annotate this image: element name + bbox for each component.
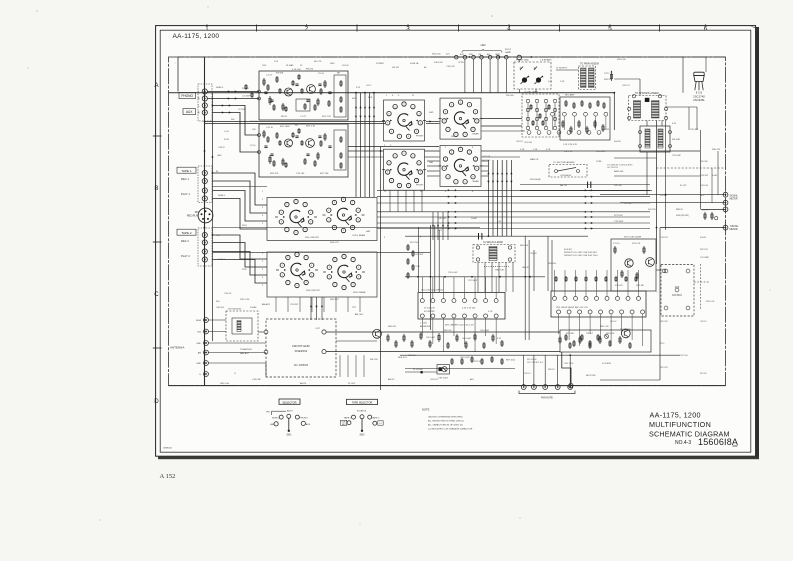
svg-text:DIN-2 REAR: DIN-2 REAR — [353, 291, 366, 294]
svg-text:C54 0.033: C54 0.033 — [596, 151, 606, 153]
wire phono R to eq amp — [208, 98, 260, 100]
IC2 pin 9 — [637, 296, 641, 300]
wire to FM MUTE — [533, 355, 535, 384]
resistor — [411, 340, 413, 348]
resistor — [565, 276, 567, 282]
junction — [569, 354, 571, 356]
contact — [553, 117, 556, 120]
pin — [563, 112, 567, 116]
junction — [204, 91, 206, 93]
svg-text:1.5V: 1.5V — [274, 61, 279, 63]
junction — [204, 150, 206, 152]
underline mark — [733, 445, 738, 447]
svg-text:0: 0 — [344, 287, 345, 289]
wire x706 vertical — [705, 57, 707, 72]
capacitor — [264, 91, 267, 93]
svg-text:C61 0.047 C67 56P/100: C61 0.047 C67 56P/100 — [421, 290, 444, 292]
svg-text:4.7K 100: 4.7K 100 — [292, 69, 302, 71]
wire vertical x660 — [659, 228, 661, 380]
svg-text:C30 100: C30 100 — [216, 307, 225, 309]
balun matching transformer dashed box — [226, 311, 258, 341]
signal arrow — [448, 216, 450, 218]
svg-text:6: 6 — [310, 222, 311, 224]
inner border frame — [160, 30, 751, 452]
wire vertical x418 — [417, 227, 419, 292]
junction — [499, 276, 501, 278]
svg-text:R34 4.7K: R34 4.7K — [330, 242, 339, 244]
IC2 pin 5 — [595, 296, 599, 300]
svg-text:RES 0.01: RES 0.01 — [398, 357, 408, 359]
svg-text:C28 10P: C28 10P — [700, 175, 709, 177]
svg-text:C33 0.01: C33 0.01 — [700, 185, 709, 187]
pin — [594, 112, 598, 116]
svg-text:LT DIAL LAMP: LT DIAL LAMP — [524, 91, 538, 94]
wire tape stair — [213, 252, 268, 276]
contact PHONO — [295, 415, 299, 419]
resistor — [491, 356, 493, 363]
signal arrow — [510, 172, 512, 174]
resistor — [589, 342, 591, 349]
jack AUX L — [202, 103, 207, 108]
svg-text:C50 33: C50 33 — [516, 141, 523, 143]
svg-text:S-CURVE: S-CURVE — [602, 363, 612, 365]
contact — [526, 126, 529, 129]
svg-text:2: 2 — [287, 282, 288, 284]
junction — [613, 92, 615, 94]
jack PHONO L — [202, 89, 207, 94]
svg-text:C22 1: C22 1 — [604, 73, 610, 75]
svg-text:FRONT: FRONT — [416, 136, 424, 138]
filter FLB FM-5001 dashed box — [661, 265, 694, 317]
pin leg — [702, 82, 703, 91]
svg-text:C18 22: C18 22 — [218, 147, 226, 149]
svg-text:R85 1.5K: R85 1.5K — [600, 326, 609, 328]
svg-text:C1 47: C1 47 — [266, 75, 273, 77]
svg-text:15606I8A: 15606I8A — [698, 437, 738, 447]
svg-text:R-CH: R-CH — [224, 139, 230, 141]
IC1 pin 4 — [452, 299, 456, 303]
resistor — [292, 132, 294, 138]
svg-text:C99 22: C99 22 — [524, 373, 531, 375]
resistor — [276, 132, 278, 139]
pin — [675, 288, 679, 292]
wire left vertical ground bus — [204, 57, 206, 386]
svg-text:R30 47K: R30 47K — [712, 149, 721, 151]
wire dashed to filter — [700, 264, 702, 310]
capacitor — [328, 145, 331, 147]
resistor — [575, 276, 577, 282]
svg-text:8: 8 — [287, 257, 288, 259]
svg-text:6: 6 — [281, 212, 282, 214]
svg-text:C59 47: C59 47 — [530, 253, 538, 255]
svg-text:SG AM: SG AM — [250, 306, 257, 309]
svg-text:0.0022: 0.0022 — [700, 237, 707, 239]
transformer T2 dashed box — [629, 96, 667, 121]
svg-text:0: 0 — [465, 134, 466, 136]
svg-text:ALL RESISTORS IN OHMS 1/4W (J): ALL RESISTORS IN OHMS 1/4W (J) — [428, 420, 464, 423]
pin leg — [695, 82, 696, 91]
wire IF stub — [512, 263, 514, 293]
svg-text:R101 150: R101 150 — [432, 54, 442, 56]
resistor — [340, 136, 342, 143]
wire IF stub — [484, 263, 486, 293]
resistor — [532, 120, 534, 126]
junction — [417, 276, 419, 278]
wire tape stair — [213, 191, 268, 222]
resistor — [324, 80, 326, 88]
wire meter line 1 — [600, 194, 726, 196]
rec amp dashed box — [522, 94, 559, 137]
svg-text:4: 4 — [475, 159, 476, 161]
svg-text:AUX: AUX — [306, 423, 311, 426]
wire vertical bundle — [360, 93, 362, 197]
pin — [476, 246, 479, 249]
svg-text:R1 47K: R1 47K — [242, 88, 250, 90]
svg-text:AFC: AFC — [470, 378, 475, 381]
scan speck — [656, 291, 657, 292]
pin — [573, 112, 577, 116]
svg-text:2: 2 — [412, 106, 413, 108]
wire tape stair — [213, 199, 268, 230]
pin — [537, 131, 541, 135]
svg-text:SW2: SW2 — [360, 434, 366, 436]
svg-text:TUNING: TUNING — [730, 226, 739, 228]
svg-text:6.3V: 6.3V — [672, 123, 677, 125]
svg-text:AM IFT: AM IFT — [388, 378, 395, 381]
svg-text:TAPE 1: TAPE 1 — [344, 416, 352, 419]
wire stub — [413, 191, 415, 213]
svg-text:TAPE 1: TAPE 1 — [181, 169, 191, 173]
ruler tick — [458, 25, 460, 32]
IC1 pin 3 — [441, 299, 445, 303]
svg-text:IF OUT: IF OUT — [680, 185, 687, 187]
wire tape stair — [213, 235, 268, 259]
wire aux L stair to flat amp — [213, 106, 260, 136]
svg-text:AM OSC: AM OSC — [355, 313, 364, 316]
svg-text:1.2K: 1.2K — [533, 149, 538, 151]
svg-text:C47 330P: C47 330P — [700, 257, 710, 259]
svg-text:DIN-1 FRONT: DIN-1 FRONT — [305, 237, 320, 239]
IC2 MPX decoder block — [551, 291, 646, 317]
svg-text:8: 8 — [389, 163, 390, 165]
svg-text:C29 100P: C29 100P — [672, 155, 682, 157]
contact TAPE1 — [352, 415, 356, 419]
terminal FM MUTE 5 — [568, 385, 573, 390]
svg-text:LAMP: LAMP — [505, 51, 511, 54]
IC2 pin 15 — [588, 310, 592, 314]
capacitor — [295, 135, 298, 137]
pin — [664, 269, 668, 273]
wire IF stub — [491, 263, 493, 293]
svg-text:C71 10: C71 10 — [613, 243, 620, 245]
svg-text:NO.4-3: NO.4-3 — [675, 440, 691, 446]
svg-text:1 TU26: 1 TU26 — [420, 323, 428, 325]
wire stub — [397, 191, 399, 213]
lamp L6 — [496, 55, 500, 59]
scan speck — [27, 67, 28, 68]
svg-text:FL SEQ-FLA 260M: FL SEQ-FLA 260M — [483, 241, 502, 244]
ruler tick — [559, 25, 561, 32]
resistor — [429, 340, 431, 348]
resistor — [317, 98, 319, 106]
pin — [557, 131, 561, 135]
svg-text:0: 0 — [465, 181, 466, 183]
capacitor — [264, 145, 267, 147]
IC1 pin 10 — [484, 314, 488, 318]
svg-text:TAPE SELECTOR: TAPE SELECTOR — [352, 402, 373, 405]
svg-text:R110 3.3K: R110 3.3K — [240, 299, 250, 301]
svg-text:LED: LED — [481, 44, 486, 47]
svg-text:0: 0 — [408, 185, 409, 187]
svg-text:R81 56K: R81 56K — [566, 333, 574, 335]
jack TAPE1 REC L — [202, 170, 207, 175]
lamp L5 — [488, 55, 492, 59]
pin — [628, 116, 631, 119]
svg-text:0: 0 — [460, 149, 461, 151]
svg-text:C43 12P: C43 12P — [660, 237, 668, 239]
wire meter line 3 — [701, 208, 726, 210]
wire main horizontal bus y93 — [169, 92, 615, 94]
resistor — [412, 264, 414, 271]
svg-text:FRONT: FRONT — [416, 185, 424, 187]
resistor — [301, 140, 303, 146]
transformer T1 dashed box — [579, 66, 596, 90]
svg-text:RET 1004: RET 1004 — [506, 360, 516, 362]
resistor — [282, 103, 284, 111]
connector DIN REC/PLAY — [198, 208, 213, 223]
terminal front end OUT2 — [322, 350, 326, 354]
IC1 pin 5 — [463, 299, 467, 303]
svg-text:SP 202: SP 202 — [700, 373, 707, 375]
resistor — [456, 334, 458, 342]
terminal flat amp in L — [258, 134, 261, 137]
TO SECOND-ASSEM dashed box — [549, 165, 587, 178]
scan speck — [310, 380, 311, 381]
svg-text:C31 20P: C31 20P — [290, 304, 299, 306]
svg-text:PLAY 2: PLAY 2 — [181, 254, 190, 258]
pin — [508, 246, 511, 249]
svg-text:SOURCE: SOURCE — [357, 411, 367, 413]
svg-text:SHIELD: SHIELD — [216, 87, 224, 89]
svg-text:FM-5001: FM-5001 — [672, 294, 682, 297]
svg-text:LT SUPPLY: LT SUPPLY — [556, 68, 568, 70]
svg-text:TONE: TONE — [596, 161, 602, 163]
svg-text:R50 560: R50 560 — [506, 95, 514, 97]
svg-text:4: 4 — [391, 131, 392, 133]
svg-text:FRONT DIAL: FRONT DIAL — [516, 59, 530, 62]
rotary switch wafer DIN-1 FRONT — [294, 199, 298, 203]
wire bus to detector — [377, 228, 650, 230]
transistor Q1 — [285, 88, 293, 96]
svg-text:6: 6 — [387, 123, 388, 125]
resistor meter divider — [704, 212, 706, 220]
svg-text:SHIELD: SHIELD — [218, 195, 226, 197]
IC1 pin 15 — [431, 314, 435, 318]
resistor — [407, 244, 409, 251]
rotary switch wafer DIN-1 REAR — [341, 197, 345, 201]
svg-text:BW8402: BW8402 — [164, 448, 173, 450]
wire bus y190.6 — [520, 190, 652, 192]
svg-text:R27 10K: R27 10K — [320, 173, 329, 175]
IC2 pin 10 — [641, 310, 645, 314]
junction terminal chassis — [569, 383, 573, 387]
inner box eq feedback — [334, 75, 346, 117]
wire stub — [311, 297, 313, 312]
selector switch SW1 bracket FM — [272, 410, 287, 412]
wire lamp feeds — [430, 56, 455, 58]
wire stub — [299, 297, 301, 312]
wire bus y236 — [405, 235, 588, 237]
terminal antenna FM300 — [204, 318, 209, 323]
IC2 pin 1 — [553, 296, 557, 300]
svg-text:SW1: SW1 — [287, 434, 293, 436]
resistor — [589, 340, 591, 347]
svg-text:300Ω: 300Ω — [196, 320, 202, 322]
IC2 pin 3 — [574, 296, 578, 300]
jack TAPE1 REC R — [202, 178, 207, 183]
transformer T1 secondary coil — [589, 68, 595, 88]
svg-text:DET 3003: DET 3003 — [438, 378, 448, 380]
svg-text:7A 75Ω/300Ω: 7A 75Ω/300Ω — [228, 308, 241, 311]
wire to FM MUTE — [557, 355, 559, 384]
wire antenna gnd2 — [209, 362, 267, 364]
terminal flat amp in R — [258, 151, 261, 154]
signal arrow — [368, 106, 370, 108]
resistor — [562, 120, 564, 128]
wire meter line 4 — [660, 227, 726, 229]
svg-text:DIN-1 REAR: DIN-1 REAR — [353, 234, 366, 237]
wire bus y146.5 — [348, 146, 439, 148]
wire vertical bundle — [355, 93, 357, 197]
svg-text:4: 4 — [358, 210, 359, 212]
wire vertical to IF — [492, 160, 494, 236]
label TAPE 1 — [177, 167, 196, 173]
svg-text:SG-205: SG-205 — [614, 141, 622, 143]
svg-text:R103 220: R103 220 — [434, 62, 444, 64]
svg-text:R201 100: R201 100 — [617, 59, 627, 61]
IC2 pin 18 — [557, 310, 561, 314]
signal arrow — [448, 222, 450, 224]
wire matrix column — [527, 103, 529, 126]
wire bus to detector — [377, 189, 650, 191]
svg-text:R73 4.7K: R73 4.7K — [632, 243, 641, 245]
svg-text:10K: 10K — [252, 129, 256, 131]
svg-text:6: 6 — [358, 220, 359, 222]
pin — [597, 131, 601, 135]
rotary switch wafer SW1-3 FRONT box — [384, 149, 425, 190]
scan speck — [770, 290, 771, 291]
resistor — [621, 270, 623, 278]
contact AUX — [301, 421, 305, 425]
svg-text:2SC380TM: 2SC380TM — [620, 329, 631, 331]
resistor — [501, 340, 503, 347]
svg-text:C41 0.01: C41 0.01 — [482, 156, 491, 158]
resistor — [578, 120, 580, 128]
wire vertical x430 bundle — [429, 225, 431, 330]
resistor — [267, 84, 269, 91]
svg-text:L-CH: L-CH — [224, 131, 229, 133]
resistor — [595, 276, 597, 282]
resistor — [589, 102, 591, 109]
svg-text:1K 220 27K: 1K 220 27K — [424, 308, 435, 310]
pin — [577, 131, 581, 135]
svg-text:2: 2 — [412, 156, 413, 158]
svg-text:4: 4 — [391, 180, 392, 182]
svg-text:8: 8 — [445, 111, 446, 113]
resistor — [304, 103, 306, 110]
inner box eq network — [296, 99, 310, 111]
svg-text:R88 1K: R88 1K — [676, 209, 684, 211]
svg-text:R54 50K(A): R54 50K(A) — [530, 178, 541, 181]
svg-text:REC/PLAY: REC/PLAY — [187, 215, 200, 218]
junction — [429, 121, 431, 123]
wire vertical to IF — [497, 160, 499, 236]
svg-text:6: 6 — [476, 121, 477, 123]
page edge shadow right — [756, 27, 759, 459]
IC2 pin 6 — [605, 296, 609, 300]
wire matrix column — [545, 103, 547, 126]
wire lamp drop — [481, 59, 483, 93]
wire supply drop x178 — [177, 57, 179, 92]
svg-text:REC AMP: REC AMP — [565, 94, 575, 97]
resistor — [555, 276, 557, 282]
wire det — [405, 371, 437, 373]
resistor — [615, 276, 617, 282]
junction — [471, 276, 473, 278]
pin — [584, 112, 588, 116]
svg-text:BASS 50K: BASS 50K — [614, 170, 624, 173]
wire stub — [359, 297, 361, 312]
connector group TAPE2 dashed box — [198, 228, 212, 266]
svg-text:AF METER: AF METER — [420, 325, 431, 328]
svg-text:2: 2 — [469, 152, 470, 154]
resistor — [451, 358, 453, 365]
pin — [658, 95, 661, 98]
wire lamp drop — [464, 59, 466, 93]
signal arrow — [501, 172, 503, 174]
svg-text:6: 6 — [328, 210, 329, 212]
capacitor — [306, 153, 309, 155]
svg-text:R35 1K: R35 1K — [660, 195, 667, 197]
signal arrow — [448, 202, 450, 204]
wire bus y227.5 — [213, 227, 481, 229]
svg-text:R23 470: R23 470 — [270, 173, 279, 175]
DPLX decoder block box — [611, 239, 656, 291]
signal arrow — [448, 211, 450, 213]
wire lamp drop — [489, 59, 491, 93]
svg-text:R36 4.7K: R36 4.7K — [330, 299, 339, 301]
svg-text:4: 4 — [448, 176, 449, 178]
svg-text:2: 2 — [399, 185, 400, 187]
contact TAPE2 — [368, 415, 372, 419]
resistor — [403, 334, 405, 342]
wire buffer — [336, 340, 377, 342]
resistor — [629, 342, 631, 349]
svg-text:1-2: 1-2 — [379, 423, 382, 425]
svg-text:L.E.BOARD: L.E.BOARD — [540, 59, 552, 62]
resistor — [559, 336, 561, 344]
svg-text:VR2 10K: VR2 10K — [636, 285, 645, 287]
wire stub — [355, 355, 357, 377]
transistor Q3 — [285, 139, 293, 147]
contact — [544, 99, 547, 102]
IC2 pin 8 — [626, 296, 630, 300]
wire vertical x683 — [682, 57, 684, 93]
wire stub — [347, 297, 349, 312]
signal arrow phono — [228, 90, 230, 92]
resistor — [438, 333, 440, 342]
signal arrow — [492, 172, 494, 174]
